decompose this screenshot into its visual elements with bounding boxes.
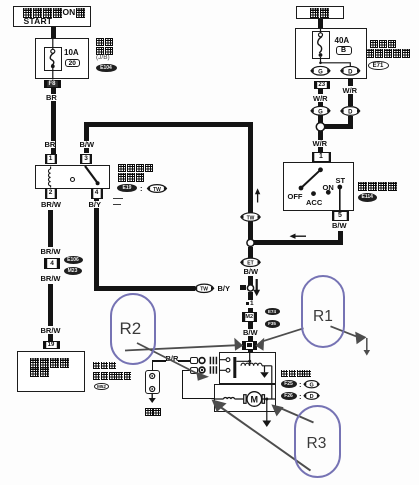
annotation ellipse R3 — [294, 405, 341, 479]
wire label B/W above pin 3 — [80, 141, 95, 149]
connector tag M2 — [242, 312, 258, 322]
connector eye D at F26 — [304, 392, 319, 400]
fuse box J/B outline — [35, 38, 89, 80]
svg-text:D: D — [310, 394, 314, 400]
connector small rect row2 — [190, 367, 198, 374]
wire battery to fusible box — [318, 19, 323, 28]
wire junction down to ignition switch — [318, 129, 323, 152]
connector badge M52 — [94, 383, 109, 391]
note marker *1 — [245, 300, 255, 308]
wire B/Y horizontal from relay pin4 to TW — [94, 286, 195, 291]
wire B/R horizontal — [152, 360, 190, 361]
wire ignition box to fuse box — [51, 27, 56, 39]
label 點火開關 — [358, 182, 398, 192]
connector badge E74 — [265, 308, 280, 316]
switch position labels — [288, 193, 303, 201]
connector badge E71 — [368, 61, 389, 71]
node ignition ON/START source box — [13, 6, 91, 27]
connector tag 23 — [314, 81, 330, 89]
annotation arrowheads gray — [196, 332, 366, 417]
wire label BR/W — [41, 248, 61, 256]
main top-left thick wire horizontal B/W — [84, 122, 253, 127]
motor circuit internals — [214, 384, 276, 421]
wire branch to D inside fusible box — [321, 63, 351, 66]
wire stub to tag 19 — [48, 334, 53, 342]
dash marks — [113, 198, 123, 199]
wire label B/Y below pin 4 — [89, 201, 102, 209]
connector badge F26 — [281, 392, 297, 400]
starter motor box — [214, 384, 276, 412]
svg-text:G: G — [318, 69, 323, 75]
connector small rect row1 — [190, 357, 198, 364]
connector eye D in fusible box — [341, 66, 360, 75]
node W/R junction circle — [316, 123, 324, 131]
connector badge F25 — [281, 380, 297, 388]
connector tag F8 under fuse box — [44, 80, 61, 88]
connector tag 4 — [44, 258, 60, 269]
svg-text:ET: ET — [247, 261, 253, 267]
fuse symbol 10A — [50, 38, 55, 80]
relay pin 2 — [45, 188, 57, 199]
wire label BR — [45, 141, 56, 149]
arrow left on B/W wire — [290, 234, 307, 239]
wire W/R left under tag — [318, 89, 323, 94]
wire label B/W — [244, 268, 259, 276]
wire horizontal ignition to junction — [253, 240, 343, 245]
wire W/R right — [348, 79, 353, 86]
wire BR/W relay pin2 down — [48, 210, 53, 247]
ignition pin 1 — [312, 152, 331, 163]
arrow to battery — [149, 394, 156, 404]
relay contact circle — [71, 178, 75, 182]
connector badge M23 — [64, 267, 82, 275]
ignition switch pointer — [301, 170, 321, 188]
battery box 電瓶 top right — [296, 6, 344, 20]
TW reference eye on main wire — [241, 213, 260, 222]
battery symbol contacts — [150, 374, 155, 392]
TW reference eye near relay — [148, 185, 167, 193]
annotation ellipse R2 — [110, 293, 156, 365]
label 智慧型進入控制器 — [93, 362, 116, 370]
value label 40A — [335, 37, 350, 45]
wire right vertical B/W to junction — [248, 122, 253, 243]
wire pin5 down — [338, 231, 343, 243]
wire label B/W above starter — [243, 329, 258, 337]
theft warning relay box — [35, 165, 111, 189]
svg-text:M: M — [251, 394, 259, 404]
wire label B/W below pin 5 — [332, 222, 347, 230]
ground in solenoid — [260, 372, 269, 378]
wire label B/Y — [218, 285, 231, 293]
connector eye G in fusible box — [311, 66, 330, 75]
relay switch arm — [85, 166, 100, 185]
node junction circle B/W — [247, 239, 254, 246]
fuse 10A inner rect — [44, 47, 62, 71]
ignition pin 5 — [332, 211, 349, 221]
connector eye D lower — [341, 107, 360, 116]
connector tag 19 — [43, 341, 60, 350]
connector comb row2 — [210, 366, 216, 373]
wire ST contact to pin 5 — [339, 187, 341, 211]
relay pin 3 — [80, 154, 92, 165]
node junction circle B/Y — [247, 285, 253, 291]
wire stub below F8 — [51, 88, 56, 94]
fusible link and fuse box outline — [295, 28, 368, 79]
wire elbow right to junction — [322, 124, 353, 129]
wire label BR/W — [41, 327, 61, 335]
fusible link symbol 40A — [318, 28, 323, 63]
wire label W/R — [313, 140, 328, 148]
solenoid internals — [219, 352, 272, 385]
wire junction down chain — [248, 247, 253, 258]
annotation ellipse R1 — [301, 275, 346, 348]
value label 10A — [64, 49, 79, 57]
ground below motor — [262, 421, 271, 428]
starter terminal connector block — [242, 341, 258, 350]
svg-text:G: G — [309, 383, 313, 389]
connector ring row1 — [199, 358, 205, 364]
svg-text:TW: TW — [247, 215, 255, 221]
connector badge E106 — [64, 256, 83, 264]
connector comb row1 — [210, 357, 216, 364]
wire relay pin3 up — [84, 122, 89, 153]
wire BR fuse to relay — [51, 101, 56, 154]
small gray down arrow near R1 — [364, 338, 371, 356]
label 保險絲盒 (J/B) — [96, 38, 114, 47]
wire label B/R — [166, 355, 179, 363]
svg-text:G: G — [318, 109, 323, 115]
starter solenoid box — [219, 352, 276, 384]
battery feed symbol near controller — [145, 370, 160, 394]
fuse letter box B — [336, 46, 352, 55]
solenoid contact points — [226, 358, 230, 362]
TW reference eye on B/Y wire — [195, 284, 214, 293]
label 電瓶 under battery symbol — [145, 408, 163, 417]
connector ring row2 — [199, 367, 205, 373]
label 防盜警示繼電器 — [118, 164, 154, 173]
relay coil — [48, 167, 50, 188]
fuse number box 20 — [65, 59, 80, 67]
ignition switch rotary contacts — [299, 167, 343, 196]
connector badge E114 — [358, 193, 377, 202]
fusible link 40A inner rect — [312, 31, 330, 60]
wire label BR/W below pin 2 — [41, 201, 61, 209]
ET reference eye — [241, 258, 260, 267]
connector badge F35 — [265, 320, 280, 328]
svg-text:D: D — [348, 69, 353, 75]
label 起動馬達 — [281, 370, 312, 378]
connector badge E19 — [117, 184, 137, 193]
connector badge E104 — [96, 64, 117, 73]
wire label BR/W — [41, 275, 61, 283]
relay pin 1 — [45, 154, 57, 165]
wire B/Y vertical from relay pin4 — [94, 199, 99, 289]
ignition switch box — [283, 162, 354, 212]
arrow up beside main wire — [255, 188, 260, 202]
label 易熔絲和保險絲盒 — [370, 40, 397, 49]
connector eye G at F25 — [304, 381, 319, 389]
wire thin from row2 left down to motor box — [182, 370, 190, 371]
annotation gray line R2 to starter terminal — [125, 326, 356, 470]
wire BR/W to controller — [48, 284, 53, 327]
connector eye G lower — [311, 106, 330, 115]
solenoid plunger plate — [233, 357, 236, 378]
svg-text:D: D — [348, 110, 353, 116]
svg-text:TW: TW — [200, 287, 208, 293]
relay pin 4 — [91, 188, 103, 199]
smart entry controller box 起動切斷輸出 — [17, 351, 86, 392]
main vertical thick wire junction to starter connector — [248, 292, 253, 342]
wire battery symbol up — [152, 361, 153, 371]
wire label BR — [46, 94, 57, 102]
arrow down beside node — [253, 279, 260, 296]
svg-text:TW: TW — [153, 187, 161, 193]
wire stub left of node — [240, 285, 246, 290]
